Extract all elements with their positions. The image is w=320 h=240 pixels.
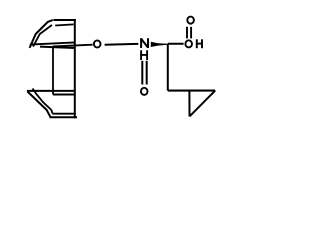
bond ring1 C5-O ether [53,45,93,47]
atom O of hydroxyl [185,40,192,47]
atom H on N [140,50,148,60]
atom N [141,38,148,48]
bond ring1 C4-C5 lower edge [40,47,75,48]
bond ring2 C9=C10 inner line [52,113,75,115]
bond C12-C13 and cyclopropane top edge [168,90,215,92]
bond ring fused right vertical C3-C10 [74,19,76,118]
bond C11-OH to hydroxyl [168,43,184,45]
stereo wedge bond N-C11 [151,42,168,47]
atom O carbonyl [187,17,194,24]
bond ring1 C1=C2 inner line [33,25,52,47]
bond ring2 C9=C10 bottom main [50,116,78,118]
atom H of hydroxyl [196,39,203,48]
bond C=O carboxyl line 2 [190,27,192,39]
bond ring1 C2=C3 top main [53,19,75,21]
bond ring2 C7=C9 main diagonal [28,92,51,118]
bond ring2 C7=C9 inner line [33,89,53,114]
atom O ether [94,40,101,47]
bond O ether to N [105,43,139,46]
bond N=O nitroso line 2 [146,61,148,85]
bond ring1 C1-C4 upper slanted [30,42,75,44]
cyclopropane hypotenuse [190,91,216,117]
bond C11-C12 vertical [167,44,169,91]
bond ring1 C1=C2 main diagonal [30,20,53,48]
bond ring1 C2=C3 inner line [55,24,73,25]
bond ring2 C6-C7 top edge [27,90,76,92]
atom O nitroso [141,88,148,95]
bond ring2 C6-C8 mid horizontal [53,94,76,96]
bond C=O carboxyl line 1 [186,27,188,39]
bond N=O nitroso line 1 [141,61,143,85]
bond ring fused left vertical C4-C6 [52,46,54,94]
cyclopropane left edge [188,91,190,117]
